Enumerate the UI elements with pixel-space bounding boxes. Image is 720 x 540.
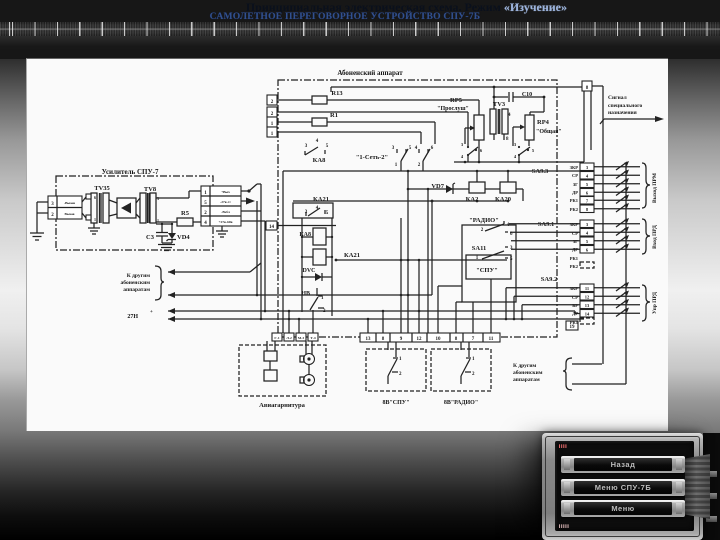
svg-text:ДР: ДР (572, 190, 578, 195)
svg-text:Г-1: Г-1 (274, 336, 279, 340)
svg-text:SA11: SA11 (472, 245, 486, 252)
button Назад (561, 456, 685, 473)
relay coil rails (302, 218, 332, 316)
svg-text:назначения: назначения (608, 110, 637, 116)
svg-text:ТV8: ТV8 (144, 186, 157, 193)
ground below J2 (216, 226, 228, 237)
node 19 terminal (566, 321, 578, 330)
svg-text:РК1: РК1 (570, 256, 579, 261)
wire long bus 3 (168, 308, 580, 314)
button Меню СПУ-7Б (561, 479, 685, 496)
svg-text:R13: R13 (331, 90, 343, 97)
svg-text:"Общая": "Общая" (536, 128, 562, 135)
svg-text:Вызов: Вызов (64, 212, 74, 216)
svg-text:13: 13 (585, 303, 590, 308)
amplifier dash-dot enclosure (56, 176, 213, 250)
svg-text:1: 1 (94, 217, 96, 222)
svg-text:М-3: М-3 (298, 336, 304, 340)
terminal strip SA9.1 rows (570, 218, 640, 269)
label К другим абоненским аппаратам (left) (121, 266, 164, 300)
vertical bus x626 (625, 163, 627, 384)
wire J2 row1 output with junction (241, 184, 261, 193)
svg-text:14: 14 (585, 312, 590, 317)
wire long bus 4 (168, 316, 584, 322)
svg-text:5: 5 (326, 211, 329, 216)
svg-text:+Вых: +Вых (221, 190, 230, 194)
svg-text:2: 2 (472, 372, 475, 377)
svg-text:2: 2 (481, 228, 484, 233)
svg-text:-Вэбл: -Вэбл (221, 210, 230, 214)
wire feeds to SA9.2 rows (505, 288, 580, 321)
svg-text:1: 1 (472, 357, 475, 362)
wire J2 row3 row4 outputs (241, 184, 265, 319)
wire net row2 (277, 112, 468, 146)
svg-text:3: 3 (510, 246, 513, 251)
svg-text:6: 6 (431, 146, 434, 151)
svg-text:ЗКР: ЗКР (570, 286, 579, 291)
svg-text:Выход ПРМ: Выход ПРМ (652, 172, 658, 203)
potentiometer RP5 Прослуш (437, 97, 484, 162)
wire long bus 1 to other units (168, 263, 261, 275)
svg-text:ДР: ДР (572, 311, 578, 316)
svg-text:5: 5 (409, 146, 412, 151)
svg-text:RP4: RP4 (537, 119, 550, 126)
svg-text:1: 1 (321, 296, 324, 301)
svg-text:4: 4 (316, 139, 319, 144)
svg-text:4: 4 (461, 154, 464, 159)
pin 1 terminal (267, 127, 277, 137)
resistor R1 (277, 112, 435, 144)
wire KA21 net y260 (335, 252, 507, 261)
resistor R13 (277, 90, 479, 115)
svg-text:5: 5 (532, 148, 535, 153)
vertical bus x602 (602, 86, 604, 364)
microphone elements (264, 341, 277, 381)
connector J2 (amplifier output) (201, 186, 241, 226)
svg-text:5: 5 (326, 144, 329, 149)
zener diode VD4 (156, 223, 190, 243)
svg-text:ТV3: ТV3 (493, 101, 506, 108)
switch S1 pole 1 (392, 146, 412, 171)
headset box Авиагарнитура (239, 345, 326, 409)
relay contact KA21 upper (293, 196, 333, 218)
svg-text:SA9.2: SA9.2 (541, 276, 557, 283)
zener diode VD7 (407, 183, 469, 194)
resistor R5 (156, 210, 201, 226)
svg-text:13: 13 (366, 337, 372, 342)
relay coil KA20 (495, 170, 523, 203)
relay contact KP4 pole B (514, 142, 535, 162)
svg-text:-Вызов: -Вызов (64, 201, 75, 205)
svg-text:4: 4 (514, 154, 517, 159)
relay coil KA8 a (299, 228, 333, 245)
svg-text:аппаратам: аппаратам (513, 377, 540, 383)
svg-text:19: 19 (570, 325, 576, 330)
svg-text:ЗКР: ЗКР (570, 222, 579, 227)
svg-text:КА8: КА8 (313, 157, 326, 164)
wire J2 row2 output arrow (241, 198, 257, 296)
wire net row4 (277, 132, 421, 144)
pin 8 terminal (top right) (582, 81, 603, 91)
pin 1 terminal (267, 117, 277, 127)
brace Вход ПРД (642, 219, 658, 254)
svg-text:Абоненский аппарат: Абоненский аппарат (337, 69, 403, 77)
wire headset feeds (288, 310, 301, 334)
svg-text:НВ: НВ (301, 291, 310, 297)
svg-text:R5: R5 (181, 210, 190, 217)
relay contact KA8 upper (305, 139, 329, 164)
transformer TV3 (490, 87, 511, 142)
svg-text:ЗГ: ЗГ (573, 239, 578, 244)
capacitor C3 (146, 223, 168, 243)
svg-text:ВР: ВР (572, 303, 578, 308)
svg-text:Сигнал: Сигнал (608, 95, 627, 101)
wire long bus 2 (168, 201, 432, 298)
wire double vertical from pin8 (584, 91, 591, 162)
svg-text:14: 14 (269, 225, 275, 230)
button SB РАДИО (431, 342, 491, 406)
wire feed TV3 top (331, 86, 583, 92)
svg-text:Л-2: Л-2 (286, 336, 292, 340)
potentiometer RP4 Общая (513, 115, 562, 146)
svg-text:3: 3 (461, 142, 464, 147)
pin 2 terminal (267, 107, 277, 117)
svg-text:8: 8 (506, 137, 509, 142)
svg-text:КА21: КА21 (313, 196, 329, 203)
relay coil KA8 b (301, 249, 333, 265)
svg-text:3: 3 (392, 146, 395, 151)
wire J1 inputs (37, 202, 48, 233)
svg-text:абоненским: абоненским (121, 279, 151, 286)
svg-text:РК1: РК1 (570, 198, 579, 203)
svg-text:-27в /с/: -27в /с/ (220, 200, 232, 204)
svg-text:РК2: РК2 (570, 207, 579, 212)
svg-text:+: + (150, 310, 153, 315)
relay contact KP8 pole A (461, 142, 483, 162)
svg-text:специального: специального (608, 103, 642, 109)
svg-text:8В"РАДИО": 8В"РАДИО" (444, 400, 478, 406)
svg-text:К другим: К другим (513, 363, 537, 369)
microphone switch НВ (301, 288, 326, 334)
svg-text:С3: С3 (146, 234, 155, 241)
svg-text:КА20: КА20 (495, 196, 511, 203)
inner box top wire (283, 171, 583, 333)
svg-text:Т-4: Т-4 (310, 336, 316, 340)
switch SA11 РАДИО-СПУ assembly (462, 217, 516, 302)
svg-text:1: 1 (399, 357, 402, 362)
wire bus y162 (454, 161, 584, 164)
svg-text:12: 12 (417, 337, 423, 342)
svg-text:ДР: ДР (572, 247, 578, 252)
svg-text:К другим: К другим (127, 273, 151, 279)
phone jacks (300, 341, 315, 386)
connector J1 (input) (48, 196, 82, 219)
svg-text:"1-Сеть-2": "1-Сеть-2" (356, 154, 388, 161)
svg-text:ТV35: ТV35 (94, 185, 110, 192)
vertical bus x428 (427, 190, 429, 333)
svg-text:КА21: КА21 (344, 252, 360, 259)
transformer TV8 (136, 186, 159, 223)
terminal strip SA9.2 rows (570, 282, 640, 325)
capacitor C10 (493, 92, 546, 115)
svg-text:4: 4 (415, 146, 418, 151)
svg-text:"СПУ": "СПУ" (476, 267, 498, 274)
wire TV8 to J2 row1 (156, 191, 201, 198)
ground below C3 VD4 (158, 243, 175, 251)
brace Выход ПРМ (642, 163, 658, 208)
terminal row (360, 333, 500, 342)
node 14 terminal (266, 221, 336, 230)
ground below J1 (30, 233, 44, 240)
svg-text:RP5: RP5 (450, 97, 463, 104)
svg-text:ЗГ: ЗГ (573, 182, 578, 187)
svg-text:10: 10 (436, 337, 442, 342)
svg-text:Вход ПРД: Вход ПРД (652, 225, 658, 249)
svg-text:27Н: 27Н (127, 314, 138, 320)
svg-text:Упр ПРД: Упр ПРД (652, 292, 658, 314)
svg-text:Авиагарнитура: Авиагарнитура (259, 402, 305, 409)
svg-text:РК1: РК1 (570, 320, 579, 325)
relay coil KA2 (466, 170, 500, 203)
svg-text:"Прослуш": "Прослуш" (437, 106, 469, 112)
switch S1 pole 2 (415, 146, 434, 171)
svg-text:РК2: РК2 (570, 264, 579, 269)
svg-text:СР: СР (572, 231, 578, 236)
svg-text:Усилитель СПУ-7: Усилитель СПУ-7 (102, 168, 159, 176)
svg-text:"РАДИО": "РАДИО" (469, 217, 499, 224)
pin 2 terminal (267, 95, 277, 105)
svg-text:DVС: DVС (303, 268, 316, 274)
subscriber unit dash-dot enclosure (278, 80, 557, 337)
svg-text:аппаратам: аппаратам (123, 287, 150, 293)
diode DV6 (301, 268, 332, 281)
headset connector terminals (272, 333, 318, 341)
svg-text:2: 2 (399, 372, 402, 377)
svg-text:VD4: VD4 (177, 234, 190, 241)
svg-text:6: 6 (94, 195, 96, 200)
svg-text:11: 11 (489, 337, 494, 342)
svg-text:+27в-60в: +27в-60в (219, 220, 233, 224)
vertical x432 junction (431, 200, 434, 203)
label 27Н supply (127, 310, 153, 320)
svg-text:3: 3 (305, 144, 308, 149)
svg-text:6: 6 (480, 148, 483, 153)
terminal strip SA9.3 rows (570, 161, 640, 213)
ground below TV35 (88, 223, 100, 234)
svg-text:3: 3 (514, 142, 517, 147)
svg-text:ЗКР: ЗКР (570, 165, 579, 170)
svg-text:КА2: КА2 (466, 196, 479, 203)
svg-text:8В"СПУ": 8В"СПУ" (382, 400, 409, 406)
svg-text:абоненским: абоненским (513, 369, 543, 376)
label Сигнал специального назначения (600, 95, 664, 124)
svg-text:2: 2 (418, 163, 421, 168)
wires SA11 to SA9.1 strip (509, 224, 580, 250)
button Меню (561, 500, 685, 517)
op-amp U1 (109, 198, 136, 218)
wire net y201 (293, 200, 509, 203)
vertical bus x408 (407, 170, 410, 333)
svg-text:11: 11 (585, 286, 590, 291)
svg-text:4: 4 (508, 113, 511, 118)
svg-text:СР: СР (572, 173, 578, 178)
verticals to terminal row (368, 218, 491, 333)
brace Упр ПРД (642, 285, 658, 321)
transformer TV35 (82, 185, 111, 223)
svg-text:12: 12 (585, 295, 590, 300)
svg-text:SA9.1: SA9.1 (538, 221, 554, 228)
button SB СПУ (366, 342, 426, 406)
label К другим абоненским аппаратам (right) (513, 358, 626, 390)
svg-text:R1: R1 (330, 112, 338, 119)
svg-text:1: 1 (395, 163, 398, 168)
